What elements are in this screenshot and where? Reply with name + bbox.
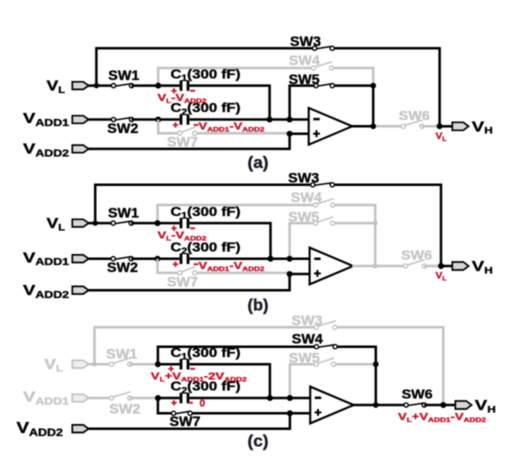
polarity marks C1 (c) [168, 366, 173, 371]
wire (b): SW1 to C1 left plate [131, 222, 157, 225]
svg-text:SW2: SW2 [107, 260, 138, 275]
switch SW4 (a) open [311, 66, 333, 70]
svg-text:SW2: SW2 [109, 402, 140, 417]
wire (c): V_L row to SW1 [88, 363, 112, 366]
switch SW1 (c) open [109, 362, 132, 366]
wire (b): V_ADD1 row to SW2 [88, 257, 114, 260]
switch SW6 (a) open [401, 124, 424, 128]
svg-text:SW1: SW1 [108, 206, 140, 221]
wire (b): vertical from SW5/SW4 junction down to op-amp output row [374, 223, 377, 266]
polarity marks C1 (b) [171, 226, 176, 231]
svg-text:SW4: SW4 [291, 190, 323, 205]
node (b): V_H output node [438, 263, 444, 269]
capacitor C1 (a) 300 fF [180, 80, 190, 91]
node (b): inverting input / SW5 column junction [287, 256, 293, 262]
terminal (b): input V_ADD1 [72, 255, 88, 263]
wire (a): SW2 to C2 left plate [132, 118, 159, 121]
svg-text:VL: VL [47, 79, 66, 95]
switch SW3 (a) closed [313, 46, 335, 50]
svg-text:SW2: SW2 [107, 121, 138, 136]
svg-text:0: 0 [200, 399, 206, 410]
polarity marks C2 (b) [173, 262, 178, 267]
svg-text:VADD1: VADD1 [23, 249, 70, 268]
wire (c): SW2 to C2 left plate [130, 397, 158, 400]
svg-text:(b): (b) [248, 296, 269, 315]
wire (b): SW2 to C2 left plate [131, 257, 157, 260]
svg-text:SW6: SW6 [401, 248, 432, 263]
svg-text:SW7: SW7 [170, 414, 201, 429]
svg-text:SW3: SW3 [288, 171, 320, 186]
svg-text:(c): (c) [248, 432, 269, 451]
svg-text:C2(300 fF): C2(300 fF) [171, 379, 241, 396]
polarity marks C2 (a) [173, 122, 178, 127]
svg-text:SW5: SW5 [289, 72, 321, 87]
svg-text:VH: VH [472, 258, 493, 276]
wire (a): V_ADD2 row up to op-amp non-inverting input [88, 134, 309, 149]
node (c): junction SW4/SW5 column at SW5 row [373, 361, 379, 367]
switch SW5 (c) open [314, 362, 336, 366]
op-amp U1 (b) [310, 248, 354, 285]
svg-text:VADD1-VADD2: VADD1-VADD2 [199, 261, 266, 273]
node (a): junction SW4/SW5 column at output row [370, 123, 376, 129]
wire (a): V_ADD1 row to SW2 [88, 118, 114, 121]
wire (a): SW1 to C1 left plate [132, 84, 159, 87]
wire (a): vertical from SW5/SW4 junction down to op-amp output row [372, 86, 375, 127]
svg-text:VL+VADD1-VADD2: VL+VADD1-VADD2 [398, 412, 487, 424]
svg-text:SW6: SW6 [399, 108, 430, 123]
node (a): non-inverting input / SW7 junction [287, 131, 293, 137]
svg-text:VADD2: VADD2 [17, 420, 64, 439]
wire (b): SW7 branch from C2 top node to non-inverting input node [158, 259, 180, 273]
terminal (c): output V_H [455, 401, 471, 409]
svg-text:VH: VH [472, 118, 493, 136]
wire (c): V_ADD2 row up to op-amp non-inverting input [88, 413, 311, 428]
node (b): C1 top-plate node (SW1/SW4/feedback junction) [155, 220, 161, 226]
svg-text:VADD1-VADD2: VADD1-VADD2 [199, 122, 266, 134]
capacitor C2 (c) 300 fF [180, 393, 190, 404]
switch SW1 (a) closed [111, 84, 133, 88]
svg-text:SW6: SW6 [402, 387, 433, 402]
svg-text:VADD2: VADD2 [23, 282, 70, 301]
switch SW2 (a) closed [111, 117, 133, 121]
wire (a): SW4 branch from C1 top node to output column [158, 68, 313, 86]
capacitor C2 (a) 300 fF [180, 114, 190, 125]
terminal (c): input V_ADD1 [72, 394, 88, 402]
node (a): junction SW4/SW5 column at SW5 row [370, 83, 376, 89]
wire (a): SW5 branch from inverting input column [290, 86, 316, 120]
wire (b): C1 right plate to inverting-input column [189, 223, 270, 259]
svg-text:SW1: SW1 [106, 347, 138, 362]
wire (a): SW7 branch from C2 top node to non-inverting input node [158, 120, 180, 134]
wire (b): V_L row to SW1 [88, 222, 114, 225]
wire (c): SW4 branch from C1 top node to output column [158, 347, 317, 365]
node (b): C2 top-plate node (SW2/SW7 junction) [155, 256, 161, 262]
op-amp U1 (c) [310, 387, 354, 424]
svg-text:VL: VL [436, 131, 447, 143]
svg-text:C1(300 fF): C1(300 fF) [171, 67, 241, 84]
capacitor C1 (b) 300 fF [180, 218, 190, 229]
node (a): C1 top-plate node (SW1/SW4/feedback junction) [155, 83, 161, 89]
wire (a): top feedback rail from V_L node to V_H node [96, 48, 314, 85]
svg-text:SW4: SW4 [289, 53, 321, 68]
switch SW6 (b) open [404, 264, 427, 268]
svg-text:C2(300 fF): C2(300 fF) [171, 100, 241, 117]
terminal (b): input V_ADD2 [72, 286, 88, 294]
terminal (a): input V_ADD2 [72, 145, 88, 153]
svg-text:SW5: SW5 [289, 350, 321, 365]
svg-text:SW1: SW1 [108, 68, 140, 83]
wire (b): C2 right plate to op-amp inverting input [189, 257, 309, 260]
svg-text:VH: VH [475, 397, 496, 415]
switch SW4 (c) closed [314, 345, 337, 349]
switch SW1 (b) closed [111, 221, 133, 225]
wire (a): op-amp output to SW6 [351, 125, 373, 128]
svg-text:VL: VL [47, 216, 66, 232]
polarity marks C1 (a) [171, 88, 176, 93]
svg-text:VADD1: VADD1 [23, 110, 70, 129]
svg-text:SW7: SW7 [167, 275, 198, 290]
terminal (c): input V_ADD2 [72, 425, 88, 433]
switch SW7 (b) open [178, 271, 197, 275]
switch SW4 (b) open [313, 203, 335, 207]
wire (a): V_L row to SW1 [88, 84, 114, 87]
switch SW3 (c) open [314, 325, 337, 329]
wire (a): C1 right plate to inverting-input column [189, 86, 269, 120]
svg-text:(a): (a) [248, 153, 269, 172]
node (a): inverting input / SW5 column junction [287, 117, 293, 123]
switch SW7 (c) closed [172, 411, 193, 415]
op-amp U1 (a) [309, 108, 353, 145]
node (c): feedback rail junction on V_L row [92, 362, 97, 367]
terminal (a): input V_L [72, 82, 88, 90]
wire (c): vertical from SW5/SW4 junction down to op-amp output row [375, 364, 378, 405]
wire (b): op-amp output to SW6 [352, 265, 375, 268]
node (c): C2 top-plate node (SW2/SW7 junction) [155, 395, 161, 401]
svg-text:SW3: SW3 [292, 313, 324, 328]
terminal (b): output V_H [452, 262, 468, 270]
svg-text:SW5: SW5 [288, 209, 320, 224]
wire (b): V_ADD2 row up to op-amp non-inverting input [88, 274, 310, 290]
switch SW7 (a) open [178, 131, 197, 135]
wire (c): SW6 to V_H node [424, 404, 443, 407]
wire (c): C1 right plate to inverting-input column [189, 364, 270, 398]
wire (c): SW7 branch from C2 top node to non-inverting input node [158, 398, 174, 413]
node (b): C1 output joins inverting input row [268, 256, 274, 262]
wire (a): SW6 to V_H node [422, 125, 440, 128]
svg-text:C1(300 fF): C1(300 fF) [171, 345, 241, 362]
svg-text:C2(300 fF): C2(300 fF) [171, 239, 241, 256]
svg-text:SW3: SW3 [290, 34, 322, 49]
node (a): C2 top-plate node (SW2/SW7 junction) [155, 117, 161, 123]
svg-text:VL: VL [44, 357, 63, 373]
polarity marks C2 (c) [171, 400, 176, 405]
node (b): feedback rail junction on V_L row [93, 220, 98, 225]
node (c): V_H output node [440, 402, 446, 408]
wire (b): top feedback rail from V_L node to V_H node [95, 185, 313, 223]
capacitor C1 (c) 300 fF [180, 359, 190, 370]
wire (c): top feedback rail from V_L node to V_H node [95, 327, 317, 364]
capacitor C2 (b) 300 fF [180, 253, 190, 264]
switch SW3 (b) closed [311, 183, 335, 187]
node (a): V_H output node [437, 123, 443, 129]
node (b): non-inverting input / SW7 junction [287, 271, 293, 277]
svg-text:SW7: SW7 [167, 134, 198, 149]
wire (c): SW5 branch from inverting input column [290, 364, 316, 398]
terminal (a): input V_ADD1 [72, 116, 88, 124]
svg-text:VL: VL [436, 271, 447, 283]
wire (b): SW5 branch from inverting input column [290, 223, 316, 259]
terminal (a): output V_H [452, 122, 468, 130]
switch SW2 (b) closed [111, 257, 133, 261]
switch SW6 (c) closed [404, 403, 426, 407]
wire (c): V_H node to output terminal [443, 404, 458, 407]
node (a): feedback rail junction on V_L row [94, 83, 99, 88]
switch SW2 (c) open [109, 396, 132, 400]
wire (c): V_ADD1 row to SW2 [88, 397, 112, 400]
wire (c): C2 right plate to op-amp inverting input [189, 397, 310, 400]
wire (b): V_H node to output terminal [441, 265, 453, 268]
node (a): C1 output joins inverting input row [267, 117, 273, 123]
node (c): C1 top-plate node (SW1/SW4/feedback junction) [155, 361, 161, 367]
wire (b): SW4 branch from C1 top node to output column [158, 205, 316, 223]
wire (c): SW1 to C1 left plate [130, 363, 158, 366]
terminal (c): input V_L [72, 360, 88, 368]
wire (c): op-amp output to SW6 [353, 404, 376, 407]
svg-text:VADD1: VADD1 [23, 389, 70, 408]
switch SW5 (b) open [314, 221, 335, 225]
node (c): C1 output joins inverting input row [267, 395, 273, 401]
node (c): inverting input / SW5 column junction [287, 395, 293, 401]
svg-text:C1(300 fF): C1(300 fF) [171, 204, 241, 221]
wire (b): SW6 to V_H node [424, 265, 441, 268]
node (b): junction SW4/SW5 column at output row [373, 264, 378, 269]
wire (a): V_H node to output terminal [440, 125, 452, 128]
node (b): junction SW4/SW5 column at SW5 row [373, 221, 378, 226]
switch SW5 (a) closed [314, 84, 335, 88]
node (c): junction SW4/SW5 column at output row [373, 402, 379, 408]
node (c): non-inverting input / SW7 junction [287, 410, 293, 416]
svg-text:SW4: SW4 [292, 332, 324, 347]
terminal (b): input V_L [72, 219, 88, 227]
svg-text:VADD2: VADD2 [23, 141, 70, 160]
wire (a): C2 right plate to op-amp inverting input [189, 118, 308, 121]
